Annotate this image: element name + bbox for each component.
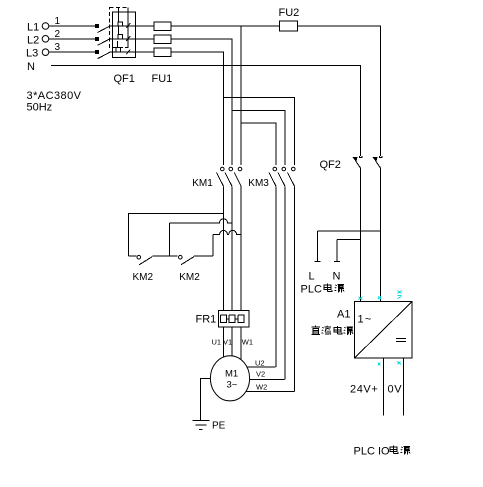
thermal relay FR1 (218, 310, 249, 327)
svg-text:3: 3 (55, 42, 61, 53)
fuse FU1 pole 2 (154, 35, 171, 44)
wire L1 drop to KM1 pole 3 (240, 26, 242, 165)
svg-text:QF1: QF1 (114, 73, 135, 85)
svg-text:N: N (333, 271, 341, 283)
svg-text:V1: V1 (223, 338, 232, 347)
wire KM3 pole 2 to motor V2 (284, 186, 286, 379)
svg-text:1~: 1~ (358, 314, 373, 326)
svg-text:PLC IO: PLC IO (354, 446, 391, 458)
label PLC IO dianyuan (354, 445, 411, 457)
svg-text:N: N (27, 61, 35, 73)
wire L1 phase to FU2 and QF2 right pole (171, 26, 381, 156)
fuse FU1 pole 1 (154, 22, 171, 31)
breaker QF2 pole 1 (353, 156, 363, 302)
svg-text:PLC: PLC (301, 284, 322, 296)
svg-text:2: 2 (55, 29, 61, 40)
wire 0V output (402, 358, 404, 415)
contactor KM2 contact 2 (179, 255, 214, 264)
wire KM1 pole 2 to FR1 (231, 186, 233, 310)
svg-text:A1: A1 (337, 309, 350, 321)
wire L3 input, number 3 (49, 42, 99, 54)
contactor KM1 pole 1 (217, 167, 225, 186)
svg-text:PE: PE (212, 421, 226, 432)
wire motor U2 (247, 366, 276, 368)
label zhiliu dianyuan (311, 326, 353, 335)
wire 24V+ output (382, 358, 384, 415)
svg-text:W2: W2 (256, 383, 267, 392)
wire KM3 pole 1 to motor U2 (275, 186, 277, 367)
terminal L2 (42, 36, 49, 43)
terminal L3 (42, 49, 49, 56)
motor M1 (210, 356, 249, 401)
svg-text:U1: U1 (212, 338, 222, 347)
wire N terminal branch (334, 239, 361, 261)
svg-text:3~: 3~ (227, 380, 238, 391)
wire L1 input, number 1 (49, 16, 99, 28)
wire L2 input, number 2 (49, 29, 99, 41)
wire motor V2 (249, 378, 284, 380)
wire KM2 branch A (129, 213, 224, 256)
wire KM1 pole 3 to FR1 (240, 186, 242, 310)
wire KM3 pole 3 to motor W2 (294, 186, 296, 391)
svg-text:FU2: FU2 (279, 7, 300, 19)
wire KM1 pole 1 to FR1 (223, 186, 225, 310)
svg-text:3*AC380V: 3*AC380V (27, 90, 82, 102)
svg-text:L3: L3 (26, 48, 38, 60)
contactor KM3 pole 2 (278, 167, 286, 186)
svg-text:1: 1 (55, 16, 61, 27)
fuse FU1 pole 3 (154, 48, 171, 57)
power supply A1 box (354, 302, 412, 359)
svg-text:M1: M1 (225, 369, 238, 380)
wire N to QF2 left pole (51, 66, 361, 156)
contactor KM1 pole 2 (225, 167, 233, 186)
svg-text:L2: L2 (27, 34, 39, 46)
wire branch L3 to KM3 pole 3 (224, 97, 295, 165)
ground PE (193, 420, 210, 429)
svg-text:50Hz: 50Hz (27, 102, 53, 114)
terminal L1 (42, 23, 49, 30)
wire FR1 to motor W1 (240, 327, 242, 360)
wire FR1 to motor V1 (231, 327, 233, 356)
contactor KM1 pole 3 (234, 167, 242, 186)
wire L2 to KM1 pole 2 (171, 39, 232, 165)
label PLC dianyuan (301, 283, 345, 295)
svg-text:FU1: FU1 (152, 73, 173, 85)
wire KM2 branch B with hop (169, 219, 232, 256)
svg-text:KM3: KM3 (248, 178, 269, 189)
svg-text:24V+: 24V+ (350, 384, 378, 396)
svg-text:W1: W1 (242, 338, 253, 347)
wire L3 to KM1 pole 1 (171, 52, 224, 165)
wire branch L1 to KM3 pole 1 (241, 123, 276, 165)
wire L terminal branch (315, 231, 381, 262)
svg-text:FR1: FR1 (196, 314, 217, 326)
wire motor W2 (246, 390, 295, 392)
wire branch L2 to KM3 pole 2 (232, 110, 285, 165)
wire FR1 to motor U1 (223, 327, 225, 357)
breaker QF2 pole 2 (373, 156, 383, 302)
circuit breaker QF1 (98, 8, 155, 59)
svg-text:U2: U2 (255, 359, 265, 368)
svg-text:L: L (309, 271, 315, 283)
contactor KM2 contact 1 (129, 255, 178, 264)
contactor KM3 pole 1 (269, 167, 277, 186)
fuse FU2 (280, 21, 298, 31)
svg-text:KM1: KM1 (192, 178, 213, 189)
wire motor to PE ground (201, 378, 211, 420)
wire KM2 branch C with hops (213, 230, 241, 256)
cyan grip marks on A1 (359, 291, 402, 366)
svg-text:L1: L1 (27, 22, 39, 34)
svg-text:KM2: KM2 (133, 272, 154, 283)
contactor KM3 pole 3 (288, 167, 296, 186)
svg-text:0V: 0V (388, 384, 403, 396)
svg-text:QF2: QF2 (320, 159, 341, 171)
svg-text:V2: V2 (256, 370, 265, 379)
svg-text:KM2: KM2 (179, 272, 200, 283)
